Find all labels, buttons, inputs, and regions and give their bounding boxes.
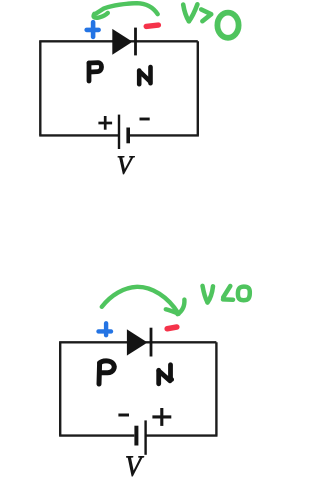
annotation text V<0 (green marker, bottom) — [203, 286, 250, 303]
battery V (bottom): short thick - plate left — [134, 426, 138, 446]
wire left side of top loop — [39, 41, 41, 135]
wire top side of bottom loop — [59, 341, 216, 343]
annotation green arrow (top, pointing left) — [94, 3, 158, 18]
node label P (hand-drawn, top) — [89, 63, 102, 81]
wire right side of top loop — [197, 41, 199, 135]
annotation minus sign (red marker, bottom) — [167, 327, 177, 329]
diode D2 (anode left / cathode bar right) — [127, 328, 153, 357]
wire bottom-right segment from battery — [146, 434, 218, 436]
battery minus label (printed, bottom) — [118, 414, 129, 417]
node label N (hand-drawn, bottom) — [159, 365, 172, 384]
annotation minus sign (red marker, top) — [146, 25, 158, 26]
wire bottom-left segment to battery — [39, 134, 119, 136]
wire right side of bottom loop — [215, 342, 217, 435]
wire top side of top loop — [39, 40, 198, 42]
battery value label V (bottom) — [126, 456, 144, 476]
annotation plus sign (blue marker, bottom) — [99, 323, 112, 335]
battery value label V (top) — [118, 156, 135, 174]
battery V (top): long + plate left — [118, 115, 120, 149]
annotation green arrow (bottom, pointing right-down) — [102, 287, 185, 314]
battery plus label (printed, bottom) — [152, 408, 171, 426]
battery minus label (printed) — [140, 118, 150, 121]
node label N (hand-drawn, top) — [139, 67, 150, 84]
wire bottom-left segment to battery — [59, 434, 134, 436]
battery V (top): short thick - plate right — [126, 128, 130, 144]
node label P (hand-drawn, bottom) — [99, 361, 114, 384]
annotation plus sign (blue marker, top) — [87, 22, 99, 37]
battery plus label (printed) — [98, 116, 112, 130]
battery V (bottom): long + plate right — [144, 420, 146, 454]
diode D1 (anode left / cathode bar right) — [112, 28, 137, 56]
wire left side of bottom loop — [59, 342, 61, 435]
wire bottom-right segment from battery — [128, 134, 199, 136]
annotation text V>0 (green marker, top) — [183, 4, 238, 38]
